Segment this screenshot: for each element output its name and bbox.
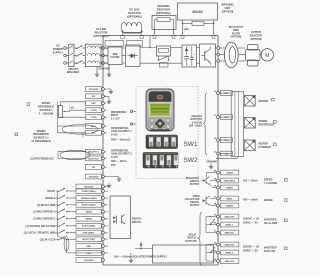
keypad buttons	[148, 118, 171, 130]
braking unit series resistor	[192, 22, 204, 26]
terminal 14 y191	[76, 189, 102, 194]
svg-text:250VAC — 3A: 250VAC — 3A	[243, 246, 259, 249]
svg-text:RUN / ON: RUN / ON	[264, 250, 275, 253]
meter M1 motor	[244, 96, 255, 107]
digital input opto-isolator box	[110, 196, 131, 239]
earth at digital ground terminal	[104, 186, 109, 188]
svg-text:[1] PID FEEDBACK: [1] PID FEEDBACK	[30, 156, 53, 160]
terminal 29 MB03-NO	[217, 215, 220, 218]
svg-text:MB04-C: MB04-C	[225, 251, 233, 254]
svg-text:[1] MULTISPEED 1: [1] MULTISPEED 1	[33, 218, 56, 221]
terminal 5 y126	[86, 124, 102, 129]
svg-text:400 — 30mA: 400 — 30mA	[243, 199, 258, 202]
shield drain ground	[82, 135, 84, 138]
svg-text:OUTPUT: OUTPUT	[190, 183, 200, 186]
svg-text:PTC: PTC	[111, 164, 116, 167]
braking unit BU200 (option)	[178, 3, 218, 20]
terminal 20 y232.6	[76, 230, 102, 235]
svg-text:+10VR: +10VR	[90, 110, 97, 112]
svg-text:30VAC — 3A: 30VAC — 3A	[243, 222, 258, 225]
earth at analog ground terminal	[104, 88, 111, 90]
terminal 13 CM	[217, 152, 220, 155]
terminal 25 MB01/MV2	[217, 179, 220, 182]
svg-text:SPEED: SPEED	[42, 101, 51, 105]
svg-text:[1] MULTISPEED 0: [1] MULTISPEED 0	[33, 211, 56, 214]
keypad module photo	[146, 89, 174, 131]
svg-text:BU200: BU200	[192, 10, 202, 14]
psu zener	[135, 248, 153, 250]
precharge resistor and relay contact	[157, 46, 171, 56]
svg-text:5M: 5M	[92, 167, 95, 169]
svg-text:ENABLE: ENABLE	[45, 197, 56, 200]
svg-text:(OPTION): (OPTION)	[222, 10, 234, 14]
svg-text:SDX — 20mA: SDX — 20mA	[111, 160, 127, 163]
DC bus capacitor bank	[182, 45, 197, 67]
terminal 1 y96.3	[86, 94, 102, 99]
meter M3 motor current	[244, 140, 255, 151]
breaker output switch blades	[74, 47, 76, 49]
svg-text:NO ALARM: NO ALARM	[264, 222, 277, 225]
terminal 30 MB03-C	[217, 223, 220, 226]
DC reactor terminal stubs	[122, 34, 124, 36]
terminal GROUND y176.5	[86, 174, 102, 179]
svg-text:BREAKER: BREAKER	[67, 71, 79, 74]
svg-text:0-10V: 0-10V	[111, 156, 118, 159]
earth for AO shield	[210, 163, 212, 164]
svg-text:AIN+/PTC1: AIN+/PTC1	[88, 151, 100, 154]
terminal 23 y252.9	[76, 251, 102, 256]
svg-text:BRAKE: BRAKE	[264, 199, 273, 202]
svg-text:(MB4): (MB4)	[86, 211, 92, 214]
svg-text:MULTI (MB6): MULTI (MB6)	[82, 226, 95, 228]
terminal 15 y198	[76, 196, 102, 201]
terminal 17 y211.6	[76, 209, 102, 214]
svg-text:AC LINE: AC LINE	[96, 27, 107, 31]
svg-text:OUTPUT: OUTPUT	[190, 204, 200, 207]
svg-text:REACTOR: REACTOR	[95, 30, 108, 34]
svg-text:GMB02: GMB02	[226, 205, 234, 207]
svg-text:GMB01: GMB01	[226, 187, 234, 189]
drive output terminals T1 T2 T3	[216, 47, 217, 49]
terminal 33 MB04-C	[217, 251, 220, 254]
svg-text:MB03-NC: MB03-NC	[225, 232, 235, 234]
earth at bottom analog ground	[104, 176, 119, 178]
svg-text:[1] RESET (MB): [1] RESET (MB)	[37, 204, 56, 207]
svg-text:POWER: POWER	[53, 47, 63, 51]
svg-text:GROUND: GROUND	[89, 89, 99, 91]
terminal 21 y239.3	[76, 237, 102, 242]
svg-text:M: M	[265, 53, 270, 59]
svg-text:AC: AC	[56, 44, 60, 48]
svg-text:(OPTION): (OPTION)	[250, 38, 261, 41]
svg-text:SPEED: SPEED	[37, 129, 46, 133]
terminal 34 MB04-NC	[217, 260, 220, 263]
EMI filter	[108, 47, 122, 65]
relay MB04 contacts	[205, 245, 207, 262]
terminal 16 y204.8	[76, 202, 102, 207]
svg-text:DC BUS: DC BUS	[130, 8, 140, 12]
inverter IGBT section	[200, 44, 216, 67]
terminal 19 y225.8	[76, 223, 102, 228]
svg-text:+MB01: +MB01	[226, 172, 234, 174]
terminal GROUND y89	[86, 87, 102, 92]
terminal 26 GMB01	[217, 186, 220, 189]
meter stubs	[243, 97, 246, 99]
svg-text:GROUND: GROUND	[89, 176, 99, 178]
svg-text:± 0-10V/MA: ± 0-10V/MA	[264, 182, 277, 185]
svg-text:REFERENCE: REFERENCE	[38, 105, 54, 109]
terminal 7 y151.7	[86, 149, 102, 154]
analog outputs brace	[203, 93, 207, 156]
svg-text:REACTOR: REACTOR	[128, 11, 141, 15]
svg-text:GROUND: GROUND	[84, 260, 94, 262]
terminal 18 y218.7	[76, 216, 102, 221]
dashed option box around keypad	[136, 87, 198, 179]
svg-text:MULTI (TB2): MULTI (TB2)	[82, 239, 95, 241]
svg-text:GROUND: GROUND	[98, 67, 110, 71]
svg-text:RESISTOR: RESISTOR	[157, 7, 170, 11]
svg-text:EMI: EMI	[113, 52, 118, 56]
terminal 11 A02	[217, 116, 220, 119]
svg-text:AIN-/PTC2: AIN-/PTC2	[88, 157, 99, 160]
shield oval on common wire	[64, 237, 69, 251]
svg-text:START (MB1): START (MB1)	[82, 190, 96, 193]
input fuse loop rectangles	[105, 41, 124, 47]
svg-text:SPEED: SPEED	[259, 119, 268, 123]
circuit breaker CB1	[69, 44, 75, 66]
svg-text:+24V: +24V	[86, 252, 92, 255]
DC link rails	[140, 47, 157, 49]
pot wiring to terminals	[60, 102, 85, 106]
terminal 8 y158.4	[86, 156, 102, 161]
svg-text:500 - 20mA: 500 - 20mA	[189, 125, 202, 128]
svg-text:MB03-C: MB03-C	[225, 224, 233, 226]
shielded pair to AIN2	[58, 151, 86, 153]
shielded pair to AIN1	[58, 125, 86, 127]
switch common bus wire	[56, 191, 58, 236]
keypad logo	[157, 95, 164, 100]
keypad LCD screen	[149, 102, 172, 116]
DIP switch SW2	[143, 153, 178, 169]
svg-text:UNIT: UNIT	[224, 6, 230, 10]
svg-text:(OPTION): (OPTION)	[231, 36, 242, 39]
svg-text:REF: REF	[91, 103, 96, 105]
svg-text:SDX — 20mA [1]: SDX — 20mA [1]	[111, 139, 130, 142]
source select wire down	[57, 102, 59, 126]
terminal 4 y117.2	[86, 115, 102, 120]
push-pull output opto	[207, 172, 217, 174]
svg-text:MB01/MV2: MB01/MV2	[224, 180, 236, 182]
open collector output opto	[203, 199, 206, 202]
svg-text:MOTOR: MOTOR	[259, 99, 269, 103]
DIP switch SW1	[146, 135, 178, 149]
svg-text:(OPTIONAL): (OPTIONAL)	[156, 11, 171, 15]
svg-text:400 — 30mA: 400 — 30mA	[243, 180, 258, 183]
svg-text:(MB5): (MB5)	[86, 219, 92, 221]
terminal 2 y103.3	[86, 101, 102, 106]
svg-text:OUTPUTS: OUTPUTS	[185, 240, 197, 243]
svg-text:SW1: SW1	[183, 141, 197, 148]
speed pot R1	[58, 106, 62, 118]
svg-text:+DC: +DC	[183, 27, 188, 31]
motor M	[260, 54, 262, 56]
wires through ring filter	[238, 47, 245, 49]
svg-text:1 kΩ: 1 kΩ	[69, 108, 74, 110]
svg-text:SW2: SW2	[183, 157, 197, 164]
svg-text:SOURCE 2 ±: SOURCE 2 ±	[33, 136, 49, 140]
svg-text:2 ± 10V: 2 ± 10V	[111, 118, 120, 121]
svg-text:FILTER: FILTER	[111, 55, 120, 59]
svg-text:BRAKING: BRAKING	[157, 4, 169, 8]
DC reactor jumper bar	[123, 32, 142, 34]
terminal 10 A01	[217, 92, 220, 95]
earth at bottom ground terminal	[104, 259, 131, 261]
svg-text:SOURCE 1: SOURCE 1	[39, 108, 53, 112]
keypad dark top panel	[149, 91, 172, 102]
svg-text:MB04-NO: MB04-NO	[225, 243, 235, 246]
svg-text:MB03-NO: MB03-NO	[225, 216, 235, 218]
terminal 6 y132.8	[86, 130, 102, 135]
relay outputs brace	[198, 212, 202, 266]
svg-text:250VAC — 3A: 250VAC — 3A	[243, 218, 259, 221]
svg-text:(OPTIONAL): (OPTIONAL)	[127, 14, 142, 18]
terminal 3 y110.2	[86, 108, 102, 113]
AO shielded cable bundle	[231, 92, 243, 157]
svg-text:[1] LOCAL / REMOTE (MB): [1] LOCAL / REMOTE (MB)	[24, 232, 56, 235]
earth at 5M terminal	[104, 95, 109, 97]
svg-text:MB02: MB02	[227, 198, 234, 200]
earth symbol right	[108, 65, 110, 73]
svg-text:GROUND: GROUND	[84, 186, 94, 188]
terminal 24 +MB01	[217, 171, 220, 174]
wire from top edge to + rail	[149, 36, 151, 48]
svg-text:GROUND: GROUND	[206, 160, 217, 163]
terminal 28 GMB02	[217, 204, 220, 207]
svg-text:MB04-NC: MB04-NC	[225, 260, 235, 263]
terminal 12 A03	[217, 139, 220, 142]
svg-text:ANT (MB7): ANT (MB7)	[83, 232, 94, 235]
drive enclosure outline	[103, 35, 218, 37]
AO cable shield drain to ground	[216, 157, 237, 159]
opto symbol	[113, 216, 116, 219]
terminal GROUND y260	[76, 258, 102, 263]
svg-text:SUPPLY: SUPPLY	[53, 51, 64, 55]
svg-text:RESET (MB3): RESET (MB3)	[82, 205, 96, 207]
svg-text:24V — 200mA ISOLATED POWER: 24V — 200mA ISOLATED POWER SUPPLY	[114, 254, 167, 258]
terminal 31 MB03-NC	[217, 231, 220, 234]
svg-text:GND: GND	[86, 246, 91, 248]
drive input terminals L1 L2 L3	[102, 47, 105, 50]
svg-text:REFERENCE: REFERENCE	[259, 123, 275, 127]
svg-text:[1] SOURCE SELECTION: [1] SOURCE SELECTION	[26, 225, 56, 228]
svg-text:-10VR: -10VR	[90, 117, 97, 119]
terminal 9 y167	[86, 165, 102, 170]
isolated power supply	[103, 248, 141, 250]
terminal 32 MB04-NO	[217, 243, 220, 246]
svg-text:MOTOR: MOTOR	[259, 142, 269, 146]
svg-text:2 - 10KOHM: 2 - 10KOHM	[39, 111, 53, 115]
relay MB03 contacts	[205, 217, 207, 233]
svg-text:0-10V: 0-10V	[111, 134, 118, 137]
svg-text:INPUTS: INPUTS	[132, 221, 141, 224]
svg-text:CURRENT: CURRENT	[259, 145, 272, 149]
rectifier bridge	[126, 45, 141, 67]
svg-text:[1] ON / CCW: [1] ON / CCW	[40, 238, 56, 241]
svg-text:START: START	[47, 190, 56, 193]
svg-text:REFERENCE: REFERENCE	[33, 132, 49, 136]
terminal 22 y246.1	[76, 244, 102, 249]
braking unit leads and +DC terminal	[182, 20, 184, 34]
terminal 27 MB02	[217, 197, 220, 200]
meter M2 speed reference	[244, 118, 255, 129]
svg-text:BRAKING: BRAKING	[221, 3, 233, 7]
svg-text:10 REFERENCE: 10 REFERENCE	[31, 139, 51, 143]
earth symbol left	[96, 67, 98, 73]
svg-text:ENABLE (MB2): ENABLE (MB2)	[81, 197, 97, 200]
AC power supply source terminals	[64, 47, 67, 50]
terminal GROUND y186.5	[76, 184, 102, 189]
svg-text:5M: 5M	[92, 96, 95, 98]
option stub terminals on dashed box	[130, 111, 136, 113]
svg-text:30VDC — 3A: 30VDC — 3A	[243, 250, 258, 253]
braking resistor leads to B1 B2 terminals	[154, 30, 156, 35]
